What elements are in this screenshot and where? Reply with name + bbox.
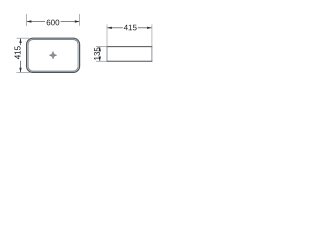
dim 415 left arrows <box>19 38 21 43</box>
dim 415 left extension lines <box>17 37 30 39</box>
svg-text:135: 135 <box>93 47 102 61</box>
dim 600 line <box>27 21 45 23</box>
side view bottom edge <box>107 60 153 62</box>
svg-text:600: 600 <box>46 18 60 27</box>
dim 415 right line <box>107 27 122 29</box>
basin top view inner rim <box>28 40 78 72</box>
dim 135 line <box>99 47 101 48</box>
dim 415 right arrows <box>107 27 112 29</box>
svg-text:415: 415 <box>124 23 138 32</box>
basin top view outer rim <box>27 38 80 72</box>
dim 415 left line <box>20 39 22 46</box>
svg-text:415: 415 <box>13 45 22 59</box>
dim 600 extension ticks <box>26 14 28 26</box>
drain symbol <box>49 51 57 59</box>
side view top edge <box>107 46 153 48</box>
dim 415 right extension lines <box>106 24 108 46</box>
dim 135 arrows <box>99 47 101 52</box>
side view rectangle <box>107 47 152 62</box>
dim 135 extension lines <box>96 46 107 48</box>
dim 600 arrows <box>27 20 32 22</box>
